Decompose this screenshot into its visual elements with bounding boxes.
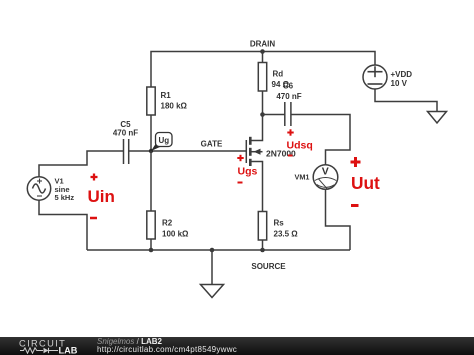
label net SOURCE: [251, 262, 286, 271]
capacitor C5: [124, 139, 129, 164]
svg-text:Ug: Ug: [158, 136, 169, 145]
label VM1: [294, 173, 309, 182]
wire source to Rs: [251, 162, 262, 212]
wire top rail DRAIN net: [151, 52, 375, 88]
footer url: [97, 346, 237, 354]
svg-text:VM1: VM1: [294, 173, 309, 182]
node Ug junction: [149, 149, 153, 153]
label Rd value: [272, 70, 290, 90]
flag Ug: [151, 133, 172, 152]
annotation Udsq minus: [288, 155, 293, 157]
ground right: [428, 112, 447, 124]
wire C6 right to voltmeter: [291, 115, 350, 165]
transistor Q1 2N7000: [246, 137, 262, 166]
wire bottom rail source net: [87, 249, 350, 251]
resistor R2: [147, 151, 155, 250]
node Rs bottom junction: [260, 248, 265, 253]
svg-text:Uut: Uut: [351, 173, 380, 193]
annotation Uin: [88, 187, 115, 206]
wire V1 top: [39, 151, 124, 177]
wire voltmeter bottom: [326, 189, 351, 250]
svg-text:23.5 Ω: 23.5 Ω: [274, 230, 299, 239]
svg-text:Rd: Rd: [273, 70, 284, 79]
voltage source VDD: [363, 65, 387, 89]
annotation Ugs: [238, 166, 258, 178]
annotation Ugs plus: [237, 155, 243, 161]
annotation Uut plus: [351, 157, 361, 167]
wire C6 left: [263, 114, 285, 116]
ground bottom: [201, 250, 224, 298]
label VDD value: [391, 70, 413, 88]
annotation Uin minus: [90, 217, 97, 220]
node C6 junction: [260, 112, 265, 117]
resistor Rs: [258, 212, 266, 251]
svg-text:GATE: GATE: [201, 140, 223, 149]
annotation Uut minus: [351, 204, 359, 207]
annotation Ugs minus: [238, 182, 243, 184]
svg-text:Udsq: Udsq: [287, 140, 313, 152]
node ground junction: [210, 248, 215, 253]
annotation Uut: [351, 173, 380, 193]
capacitor C6: [285, 102, 291, 126]
svg-text:R2: R2: [162, 219, 173, 228]
label C6 value: [276, 82, 301, 102]
label V1 value: [55, 177, 75, 203]
label net DRAIN: [250, 40, 276, 49]
svg-text:+VDD: +VDD: [391, 70, 413, 79]
svg-text:V: V: [322, 166, 329, 178]
wire VDD bottom: [375, 89, 437, 112]
label Rs value: [274, 219, 299, 239]
logo CircuitLab: [18, 338, 82, 354]
resistor Rd: [258, 52, 266, 115]
voltage source V1: [27, 177, 50, 200]
svg-text:LAB: LAB: [59, 345, 78, 354]
svg-text:DRAIN: DRAIN: [250, 40, 276, 49]
annotation Udsq plus: [287, 129, 293, 135]
annotation Udsq: [287, 140, 313, 152]
svg-text:180 kΩ: 180 kΩ: [161, 102, 188, 111]
svg-text:10 V: 10 V: [391, 79, 408, 88]
footer bar: [0, 337, 474, 355]
wire V1 bottom: [39, 200, 87, 250]
resistor R1: [147, 87, 155, 151]
node R2 bottom junction: [149, 248, 154, 253]
wire drain to transistor: [251, 115, 262, 141]
node DRAIN junction: [260, 49, 265, 54]
wire gate net: [129, 150, 247, 152]
svg-text:Uin: Uin: [88, 187, 115, 206]
svg-text:Ugs: Ugs: [238, 166, 258, 178]
svg-text:SOURCE: SOURCE: [251, 262, 286, 271]
svg-text:R1: R1: [161, 91, 172, 100]
svg-text:5 kHz: 5 kHz: [55, 193, 75, 202]
svg-text:470 nF: 470 nF: [113, 129, 138, 138]
label R1 value: [161, 91, 188, 111]
svg-text:470 nF: 470 nF: [276, 92, 301, 101]
voltmeter VM1: [313, 165, 338, 190]
label R2 value: [162, 219, 189, 239]
svg-text:C6: C6: [283, 82, 294, 91]
svg-text:100 kΩ: 100 kΩ: [162, 230, 189, 239]
label C5 value: [113, 120, 138, 138]
annotation Uin plus: [91, 174, 98, 181]
svg-text:Rs: Rs: [274, 219, 285, 228]
footer title: [97, 338, 162, 346]
label Q1 2N7000: [266, 149, 296, 159]
label net GATE: [201, 140, 223, 149]
